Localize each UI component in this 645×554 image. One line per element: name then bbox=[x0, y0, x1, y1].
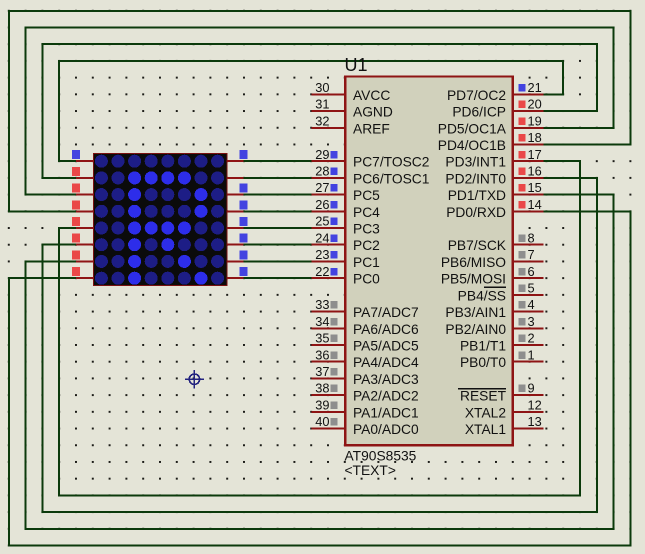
svg-text:36: 36 bbox=[315, 347, 329, 362]
U1 pin 35 (PA5/ADC5) bbox=[312, 331, 345, 346]
LED matrix column pin 4 (right) bbox=[227, 200, 248, 211]
svg-text:AVCC: AVCC bbox=[353, 88, 390, 103]
LED dot-matrix display body bbox=[94, 154, 227, 286]
U1 pin 8 (PB7/SCK) bbox=[514, 230, 544, 245]
U1 pin 18 (PD4/OC1B) bbox=[514, 130, 544, 145]
U1 pin 12 (XTAL2) bbox=[514, 397, 544, 412]
svg-text:PA7/ADC7: PA7/ADC7 bbox=[353, 305, 419, 320]
U1 pin 37 (PA3/ADC3) bbox=[312, 364, 345, 379]
svg-text:U1: U1 bbox=[345, 55, 368, 75]
svg-text:PB1/T1: PB1/T1 bbox=[460, 339, 506, 354]
U1 pin 36 (PA4/ADC4) bbox=[312, 347, 345, 362]
svg-text:PA3/ADC3: PA3/ADC3 bbox=[353, 372, 419, 387]
svg-text:32: 32 bbox=[315, 113, 329, 128]
svg-text:PB2/AIN0: PB2/AIN0 bbox=[445, 322, 506, 337]
svg-text:29: 29 bbox=[315, 147, 329, 162]
svg-text:34: 34 bbox=[315, 314, 329, 329]
U1 pin 4 (PB3/AIN1) bbox=[514, 297, 544, 312]
wire net PD0 : matrix row 8 to U1 pin 14 via bottom frame bbox=[9, 211, 631, 545]
svg-text:XTAL2: XTAL2 bbox=[465, 405, 506, 420]
U1 pin 40 (PA0/ADC0) bbox=[312, 414, 345, 429]
svg-text:AT90S8535: AT90S8535 bbox=[345, 448, 417, 463]
U1 pin 27 (PC5) bbox=[312, 180, 345, 195]
wire net PD1 : matrix row 7 to U1 pin 15 via bottom frame bbox=[26, 195, 614, 529]
wire net PC3 : matrix column 5 to U1 pin 25 bbox=[244, 227, 312, 229]
wire net PD5 : matrix row 3 to U1 pin 19 via top frame bbox=[26, 28, 614, 195]
LED matrix row pin 2 (left) bbox=[72, 167, 94, 178]
svg-text:PD3/INT1: PD3/INT1 bbox=[445, 155, 506, 170]
svg-text:17: 17 bbox=[528, 147, 542, 162]
svg-text:15: 15 bbox=[528, 180, 542, 195]
svg-text:3: 3 bbox=[528, 314, 535, 329]
svg-text:22: 22 bbox=[315, 264, 329, 279]
svg-text:AGND: AGND bbox=[353, 105, 393, 120]
svg-text:PB4/SS: PB4/SS bbox=[458, 288, 506, 303]
U1 pin 17 (PD3/INT1) bbox=[514, 147, 544, 162]
svg-text:18: 18 bbox=[528, 130, 542, 145]
svg-text:28: 28 bbox=[315, 164, 329, 179]
svg-text:24: 24 bbox=[315, 230, 329, 245]
LED matrix column pin 8 (right) bbox=[227, 267, 248, 278]
U1 pin 29 (PC7/TOSC2) bbox=[312, 147, 345, 162]
U1 pin 3 (PB2/AIN0) bbox=[514, 314, 544, 329]
svg-text:PB5/MOSI: PB5/MOSI bbox=[441, 272, 506, 287]
U1 pin 25 (PC3) bbox=[312, 214, 345, 229]
U1 pin 20 (PD6/ICP) bbox=[514, 97, 544, 112]
svg-text:PB3/AIN1: PB3/AIN1 bbox=[445, 305, 506, 320]
wire net PC5 : matrix column 3 to U1 pin 27 bbox=[244, 194, 312, 196]
svg-text:38: 38 bbox=[315, 381, 329, 396]
svg-text:12: 12 bbox=[528, 397, 542, 412]
svg-text:31: 31 bbox=[315, 97, 329, 112]
U1 pin 6 (PB5/MOSI) bbox=[514, 264, 544, 279]
svg-text:PB7/SCK: PB7/SCK bbox=[448, 238, 507, 253]
svg-text:PC1: PC1 bbox=[353, 255, 380, 270]
svg-text:14: 14 bbox=[528, 197, 542, 212]
svg-text:27: 27 bbox=[315, 180, 329, 195]
svg-text:PA6/ADC6: PA6/ADC6 bbox=[353, 322, 419, 337]
svg-text:1: 1 bbox=[528, 347, 535, 362]
U1 pin 21 (PD7/OC2) bbox=[514, 80, 544, 95]
svg-text:PA0/ADC0: PA0/ADC0 bbox=[353, 422, 419, 437]
svg-text:25: 25 bbox=[315, 214, 329, 229]
svg-text:PA4/ADC4: PA4/ADC4 bbox=[353, 355, 419, 370]
U1 pin 33 (PA7/ADC7) bbox=[312, 297, 345, 312]
svg-text:PA2/ADC2: PA2/ADC2 bbox=[353, 389, 419, 404]
svg-text:7: 7 bbox=[528, 247, 535, 262]
U1 pin 34 (PA6/ADC6) bbox=[312, 314, 345, 329]
LED matrix column pin 3 (right) bbox=[227, 184, 248, 195]
svg-text:XTAL1: XTAL1 bbox=[465, 422, 506, 437]
svg-text:21: 21 bbox=[528, 80, 542, 95]
svg-text:PC5: PC5 bbox=[353, 188, 380, 203]
wire net PC7 : matrix column 1 to U1 pin 29 bbox=[244, 160, 312, 162]
wire net PD6 : matrix row 2 to U1 pin 20 via top frame bbox=[42, 44, 596, 178]
svg-text:PC2: PC2 bbox=[353, 238, 380, 253]
LED matrix row pin 3 (left) bbox=[72, 184, 94, 195]
U1 pin 5 (PB4/SS) bbox=[514, 281, 544, 296]
U1 pin 28 (PC6/TOSC1) bbox=[312, 164, 345, 179]
svg-text:PD0/RXD: PD0/RXD bbox=[446, 205, 506, 220]
wire net PD4 : matrix row 4 to U1 pin 18 via top frame bbox=[9, 11, 631, 212]
svg-text:PC7/TOSC2: PC7/TOSC2 bbox=[353, 155, 429, 170]
svg-text:PC6/TOSC1: PC6/TOSC1 bbox=[353, 171, 429, 186]
svg-text:19: 19 bbox=[528, 113, 542, 128]
LED matrix row pin 5 (left) bbox=[72, 217, 94, 228]
svg-text:PD6/ICP: PD6/ICP bbox=[452, 105, 506, 120]
LED matrix row pin 6 (left) bbox=[72, 234, 94, 245]
LED matrix column pin 1 (right) bbox=[227, 150, 248, 161]
wire net PC2 : matrix column 6 to U1 pin 24 bbox=[244, 244, 312, 246]
svg-text:5: 5 bbox=[528, 281, 535, 296]
U1 pin 32 (AREF) bbox=[312, 113, 345, 128]
svg-text:PB6/MISO: PB6/MISO bbox=[441, 255, 506, 270]
svg-text:PD4/OC1B: PD4/OC1B bbox=[438, 138, 506, 153]
U1 pin 15 (PD1/TXD) bbox=[514, 180, 544, 195]
wire net PC4 : matrix column 4 to U1 pin 26 bbox=[244, 210, 312, 212]
wire net PD3 : matrix row 5 to U1 pin 17 via bottom frame bbox=[59, 161, 580, 495]
svg-text:16: 16 bbox=[528, 164, 542, 179]
U1 pin 23 (PC1) bbox=[312, 247, 345, 262]
U1 pin 38 (PA2/ADC2) bbox=[312, 381, 345, 396]
svg-text:PD2/INT0: PD2/INT0 bbox=[445, 171, 506, 186]
U1 pin 14 (PD0/RXD) bbox=[514, 197, 544, 212]
svg-text:PD5/OC1A: PD5/OC1A bbox=[438, 121, 507, 136]
svg-text:37: 37 bbox=[315, 364, 329, 379]
svg-text:PC0: PC0 bbox=[353, 272, 380, 287]
svg-text:35: 35 bbox=[315, 331, 329, 346]
svg-text:40: 40 bbox=[315, 414, 329, 429]
U1 pin 16 (PD2/INT0) bbox=[514, 164, 544, 179]
svg-text:PC4: PC4 bbox=[353, 205, 380, 220]
U1 pin 39 (PA1/ADC1) bbox=[312, 397, 345, 412]
IC U1 AT90S8535 body bbox=[345, 77, 512, 446]
wire net PC6 : matrix column 2 to U1 pin 28 bbox=[244, 177, 312, 179]
svg-text:PD7/OC2: PD7/OC2 bbox=[447, 88, 506, 103]
LED matrix row pin 1 (left) bbox=[72, 150, 94, 161]
svg-text:26: 26 bbox=[315, 197, 329, 212]
svg-text:PA1/ADC1: PA1/ADC1 bbox=[353, 405, 419, 420]
LED matrix column pin 6 (right) bbox=[227, 234, 248, 245]
wire net PD2 : matrix row 6 to U1 pin 16 via bottom frame bbox=[42, 178, 596, 512]
svg-text:39: 39 bbox=[315, 397, 329, 412]
LED matrix column pin 7 (right) bbox=[227, 250, 248, 261]
svg-text:PD1/TXD: PD1/TXD bbox=[448, 188, 506, 203]
LED matrix row pin 8 (left) bbox=[72, 267, 94, 278]
U1 pin 26 (PC4) bbox=[312, 197, 345, 212]
U1 pin 13 (XTAL1) bbox=[514, 414, 544, 429]
U1 pin 30 (AVCC) bbox=[312, 80, 345, 95]
origin marker bbox=[185, 370, 204, 389]
svg-text:23: 23 bbox=[315, 247, 329, 262]
svg-text:4: 4 bbox=[528, 297, 535, 312]
U1 pin 19 (PD5/OC1A) bbox=[514, 113, 544, 128]
svg-text:6: 6 bbox=[528, 264, 535, 279]
U1 pin 31 (AGND) bbox=[312, 97, 345, 112]
svg-text:13: 13 bbox=[528, 414, 542, 429]
LED matrix row pin 7 (left) bbox=[72, 250, 94, 261]
U1 pin 1 (PB0/T0) bbox=[514, 347, 544, 362]
svg-text:RESET: RESET bbox=[460, 389, 507, 404]
svg-text:8: 8 bbox=[528, 230, 535, 245]
LED matrix column pin 2 (right) bbox=[227, 177, 244, 179]
LED matrix row pin 4 (left) bbox=[72, 200, 94, 211]
wire net PD7 : matrix row 1 to U1 pin 21 via top frame bbox=[59, 61, 563, 161]
svg-text:PB0/T0: PB0/T0 bbox=[460, 355, 506, 370]
svg-text:2: 2 bbox=[528, 331, 535, 346]
svg-text:20: 20 bbox=[528, 97, 542, 112]
svg-text:AREF: AREF bbox=[353, 121, 390, 136]
LED matrix column pin 5 (right) bbox=[227, 217, 248, 228]
wire net PC1 : matrix column 7 to U1 pin 23 bbox=[244, 260, 312, 262]
U1 pin 2 (PB1/T1) bbox=[514, 331, 544, 346]
U1 pin 9 (RESET) bbox=[514, 381, 544, 396]
svg-text:PC3: PC3 bbox=[353, 222, 380, 237]
svg-text:30: 30 bbox=[315, 80, 329, 95]
U1 pin 22 (PC0) bbox=[312, 264, 345, 279]
svg-text:<TEXT>: <TEXT> bbox=[345, 463, 396, 478]
svg-text:33: 33 bbox=[315, 297, 329, 312]
svg-text:9: 9 bbox=[528, 381, 535, 396]
U1 pin 7 (PB6/MISO) bbox=[514, 247, 544, 262]
svg-text:PA5/ADC5: PA5/ADC5 bbox=[353, 339, 419, 354]
wire net PC0 : matrix column 8 to U1 pin 22 bbox=[244, 277, 312, 279]
U1 pin 24 (PC2) bbox=[312, 230, 345, 245]
